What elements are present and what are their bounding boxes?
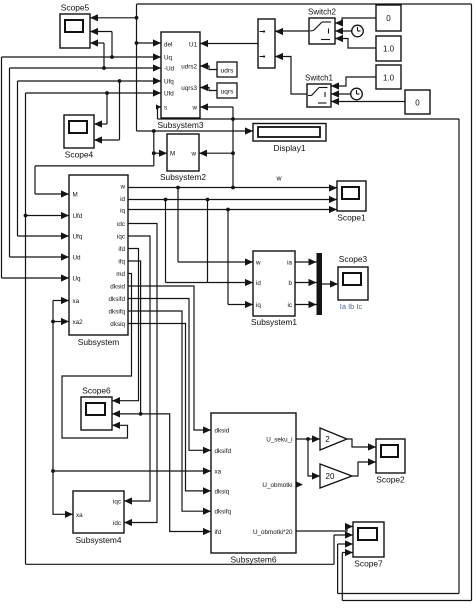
svg-text:w: w <box>255 260 261 267</box>
svg-text:dksid: dksid <box>215 428 230 435</box>
svg-text:iq: iq <box>256 302 261 309</box>
wire dksifq to Subsystem6 dksifq <box>128 311 211 515</box>
wire Constant1.0b to Switch1 in1 <box>331 77 376 90</box>
wire to Subsystem2 M <box>152 150 167 157</box>
gain Gain20 <box>320 464 352 488</box>
svg-text:Subsystem4: Subsystem4 <box>75 535 121 545</box>
scope Scope1 <box>337 181 366 223</box>
wire w output to Scope1 in1 <box>128 184 337 191</box>
wire iq to Scope1 in3 <box>128 206 337 213</box>
svg-text:2: 2 <box>325 435 330 444</box>
svg-text:Uq: Uq <box>73 276 82 283</box>
wire to Subsystem3 del <box>135 39 161 46</box>
svg-text:xa: xa <box>73 298 80 305</box>
svg-text:Subsystem: Subsystem <box>78 337 119 347</box>
wire to Subsystem Ud <box>10 253 70 260</box>
svg-text:-Ud: -Ud <box>164 66 175 73</box>
svg-text:M: M <box>170 151 175 158</box>
wire Mux2 to Scope3 <box>322 280 339 287</box>
wire to Scope5 in1 <box>90 14 137 21</box>
wire M branch vertical <box>153 131 155 166</box>
svg-text:dksifd: dksifd <box>109 296 126 303</box>
svg-text:ifd: ifd <box>118 246 125 253</box>
svg-text:1.0: 1.0 <box>383 74 395 83</box>
wire branch to Gain20 <box>308 439 320 480</box>
svg-text:w: w <box>119 184 125 191</box>
svg-text:del: del <box>164 42 172 49</box>
svg-text:20: 20 <box>326 472 335 481</box>
svg-text:md: md <box>116 271 125 278</box>
subsystem Subsystem4 <box>73 491 124 545</box>
scope Scope2 <box>376 439 405 485</box>
node junction Scope6 in2 <box>112 410 143 417</box>
svg-text:Scope7: Scope7 <box>354 559 383 569</box>
svg-text:idc: idc <box>117 221 125 228</box>
node junction iq <box>226 208 230 212</box>
wire Ufq horizontal y=81 <box>18 77 162 84</box>
svg-text:id: id <box>120 196 125 203</box>
wire Ufq rail vertical x=17.5 <box>17 81 19 236</box>
wire Constant1.0a to Switch2 in3 <box>335 35 376 48</box>
constant 1.0 b <box>376 65 401 89</box>
wire Constant0 to Switch2 in1 <box>335 18 376 27</box>
wire idc to Subsystem4 idc <box>124 224 157 527</box>
switch Switch2 <box>308 8 337 45</box>
wire id to Scope1 in2 <box>128 196 337 203</box>
wire iqc to Subsystem4 iqc <box>124 236 150 505</box>
subsystem Subsystem6 <box>211 413 296 565</box>
display Display1 <box>253 124 326 154</box>
subsystem Subsystem3 <box>157 32 203 130</box>
svg-text:dksifq: dksifq <box>215 509 232 516</box>
svg-text:U1: U1 <box>189 42 198 49</box>
svg-text:Ufq: Ufq <box>73 234 83 241</box>
svg-text:Subsystem2: Subsystem2 <box>160 172 206 182</box>
svg-text:w: w <box>191 105 197 112</box>
wire vertical to Scope7 in4 <box>342 549 353 601</box>
wire bottom y=564 to Scope7 in2 <box>26 531 354 564</box>
wire U_seku_i to Gain2 <box>296 435 320 442</box>
svg-text:Switch1: Switch1 <box>305 74 334 83</box>
wire ifq to Scope6 in2 and Subsystem6 ifd <box>128 261 211 535</box>
wire to Display1 <box>137 127 254 134</box>
wire udrs to Subsystem3 udrs2 <box>200 62 217 69</box>
subsystem Subsystem <box>69 175 128 347</box>
node junction Scope4 in1 <box>105 91 109 95</box>
wire to Subsystem Ufq <box>18 232 70 239</box>
wire right outer vertical x=471 <box>471 4 473 601</box>
svg-text:U_obmotki: U_obmotki <box>262 482 292 489</box>
svg-text:dksifd: dksifd <box>215 448 232 455</box>
subsystem Subsystem1 <box>251 251 297 327</box>
wire xa vertical x=53 <box>53 301 73 518</box>
constant 0 top <box>376 5 401 31</box>
svg-text:w: w <box>190 151 196 158</box>
clock Clock1 <box>351 88 363 100</box>
wire Mux1 out to Subsystem3 U1 <box>200 40 258 47</box>
svg-text:s: s <box>164 105 167 112</box>
node junction Scope5 in2 <box>110 55 114 59</box>
node junction Scope4 in2 <box>118 79 122 83</box>
wire U_obmotki*20 to Scope7 in1 <box>296 523 353 531</box>
wire Gain20 to Scope2 in2 <box>352 458 376 476</box>
subsystem Subsystem2 <box>160 134 206 182</box>
wire Gain2 to Scope2 in1 <box>347 439 376 451</box>
wire md loop to Scope6 in3 <box>62 274 132 439</box>
wire Uq rail vertical x=1.5 <box>1 57 3 278</box>
wire id second drop x=207.5 <box>206 198 210 283</box>
svg-text:dksiq: dksiq <box>110 321 125 328</box>
svg-text:Ufd: Ufd <box>73 213 83 220</box>
svg-text:1.0: 1.0 <box>383 45 395 54</box>
svg-text:0: 0 <box>415 99 420 108</box>
wire dksiq to Subsystem6 dksiq <box>128 324 211 495</box>
svg-text:iqc: iqc <box>113 499 121 506</box>
node junction w x=233 <box>231 186 235 190</box>
wire to Scope5 in3 <box>90 39 104 68</box>
wire Uq horizontal y=57 <box>2 53 162 60</box>
svg-text:xa2: xa2 <box>73 319 84 326</box>
wire to Subsystem3 w <box>200 103 233 110</box>
node junction Scope5 in1 <box>135 16 139 20</box>
svg-text:udrs2: udrs2 <box>181 64 197 71</box>
wire vertical x=136.5 top net <box>136 4 138 131</box>
svg-text:w: w <box>275 176 282 183</box>
wire ifd to Scope6 in1 <box>112 249 139 405</box>
svg-text:xa: xa <box>215 469 222 476</box>
wire ib to Mux2 <box>295 279 317 286</box>
wire to Subsystem2 w <box>199 150 235 157</box>
svg-text:Scope4: Scope4 <box>65 150 94 160</box>
svg-text:iqc: iqc <box>117 234 125 241</box>
block udrs tag <box>217 62 237 77</box>
svg-text:0: 0 <box>386 14 391 23</box>
wire id branch to Subsystem1 id <box>166 200 254 287</box>
wire w long horizontal y=119 <box>158 117 460 121</box>
svg-text:Scope6: Scope6 <box>82 386 111 396</box>
wire bottom inner horizontal y=592 <box>338 593 459 595</box>
wire Switch1 out to Mux1 in2 <box>275 53 307 94</box>
svg-text:Subsystem3: Subsystem3 <box>157 120 203 130</box>
wire ic to Mux2 <box>295 301 317 308</box>
wire Switch2 out to Mux1 in1 <box>275 28 309 35</box>
node w label <box>275 176 282 183</box>
wire -Ud horizontal y=68 <box>10 64 162 71</box>
wire top feedback horizontal y=4 <box>137 3 472 5</box>
svg-text:ifd: ifd <box>215 529 222 536</box>
svg-text:Ufq: Ufq <box>164 79 174 86</box>
wire ia to Mux2 <box>295 258 317 265</box>
svg-text:Display1: Display1 <box>273 143 305 153</box>
svg-text:b: b <box>288 280 292 287</box>
wire vertical to Scope7 in3 <box>338 540 353 593</box>
wire Ufd horizontal y=93 <box>26 89 162 96</box>
wire dksifd to Subsystem6 dksifd <box>128 299 211 454</box>
svg-text:Switch2: Switch2 <box>308 8 337 17</box>
wire to Scope4 in2 <box>94 81 120 144</box>
gain Gain2 <box>320 428 347 450</box>
mux Mux2 bar <box>317 253 323 315</box>
wire w branch to Subsystem1 w <box>178 188 253 266</box>
wire Ufd rail vertical x=25.5 <box>25 93 27 564</box>
svg-text:Ia Ib Ic: Ia Ib Ic <box>340 302 363 311</box>
wire U_obmotki port stub <box>296 481 303 487</box>
svg-text:U_seku_i: U_seku_i <box>266 437 292 444</box>
svg-text:ic: ic <box>287 302 292 309</box>
svg-text:Scope5: Scope5 <box>61 3 90 13</box>
mux Mux1 <box>258 19 275 68</box>
svg-text:dksiq: dksiq <box>215 488 230 495</box>
constant 1.0 a <box>376 36 401 61</box>
node junction gains <box>306 437 310 441</box>
wire to Subsystem xa <box>53 297 69 304</box>
wire Clock2 to Switch2 in2 <box>335 27 352 34</box>
wire xa to Subsystem6 xa <box>51 467 211 474</box>
svg-text:Scope2: Scope2 <box>376 475 405 485</box>
wire dksid to Subsystem6 dksid <box>128 286 211 434</box>
clock Clock2 <box>352 25 364 37</box>
svg-text:dksifq: dksifq <box>109 309 126 316</box>
node junction Scope5 in3 <box>102 66 106 70</box>
wire bottom outer horizontal y=600 <box>342 600 471 602</box>
svg-text:Scope1: Scope1 <box>337 213 366 223</box>
svg-text:uqrs: uqrs <box>221 89 234 96</box>
wire hook to Subsystem3 s <box>156 104 161 119</box>
svg-text:Ufd: Ufd <box>164 91 174 98</box>
svg-text:id: id <box>256 280 261 287</box>
wire to Scope4 in1 <box>94 93 107 128</box>
wire Constant0b to Switch1 in3 <box>331 98 405 105</box>
svg-text:xa: xa <box>76 512 83 519</box>
svg-text:ifq: ifq <box>118 259 125 266</box>
svg-text:udrs: udrs <box>221 68 234 75</box>
wire Clock1 to Switch1 in2 <box>331 90 351 97</box>
wire to Subsystem M <box>35 166 69 198</box>
node junction w x=178 <box>176 186 180 190</box>
wire Ud rail vertical x=9.5 <box>9 68 11 257</box>
svg-text:Scope3: Scope3 <box>339 254 368 264</box>
wire to Scope5 in2 <box>90 28 112 57</box>
svg-text:Subsystem6: Subsystem6 <box>230 555 276 565</box>
block uqrs tag <box>217 83 237 98</box>
wire M horizontal y=166 <box>35 165 154 167</box>
constant 0 bottom <box>405 90 430 114</box>
scope Scope7 <box>353 522 384 569</box>
wire w branch up x=233 <box>232 107 234 188</box>
wire right inner vertical x=459 <box>458 119 460 594</box>
svg-text:uqrs3: uqrs3 <box>181 85 197 92</box>
svg-text:Subsystem1: Subsystem1 <box>251 317 297 327</box>
wire to Subsystem xa2 <box>51 318 69 325</box>
svg-text:ia: ia <box>287 260 292 267</box>
svg-text:U_obmotki*20: U_obmotki*20 <box>253 529 293 536</box>
scope Scope5 <box>60 3 90 49</box>
switch Switch1 <box>305 74 334 108</box>
wire to Subsystem Uq <box>2 274 70 281</box>
scope Scope3 <box>338 254 368 300</box>
wire iq branch to Subsystem1 iq <box>228 210 253 309</box>
svg-text:iq: iq <box>120 208 125 215</box>
scope Scope4 <box>64 115 94 160</box>
scope Scope6 <box>81 386 112 431</box>
svg-text:dksid: dksid <box>110 284 125 291</box>
node junction M branch <box>152 129 156 133</box>
wire uqrs to Subsystem3 uqrs3 <box>200 84 217 91</box>
svg-text:Uq: Uq <box>164 55 173 62</box>
node junction id <box>164 198 168 202</box>
svg-text:Ud: Ud <box>73 255 82 262</box>
svg-text:idc: idc <box>113 520 121 527</box>
svg-text:M: M <box>73 192 78 199</box>
node label Ia Ib Ic <box>340 302 363 311</box>
wire to Subsystem Ufd <box>26 212 70 219</box>
node junction Ufd input <box>24 214 28 218</box>
